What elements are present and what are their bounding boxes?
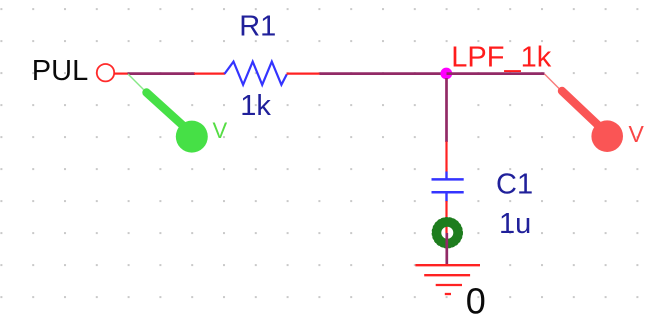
capacitor C1: [432, 172, 464, 202]
port PUL terminal circle: [97, 64, 114, 81]
svg-text:LPF_1k: LPF_1k: [451, 42, 551, 74]
wire port to probe tap: [114, 72, 129, 74]
value 1u: [499, 208, 531, 240]
wire junction down to capacitor: [445, 78, 448, 172]
label R1: [239, 11, 276, 43]
label 0: [466, 281, 486, 322]
marker ring (green): [432, 218, 462, 248]
wire probe tap to resistor lead: [128, 72, 196, 75]
svg-text:1u: 1u: [499, 208, 531, 240]
resistor R1: [194, 62, 321, 85]
voltage marker V (red): [545, 74, 645, 152]
wire junction to output tap: [447, 72, 545, 75]
value 1k: [240, 90, 271, 122]
junction node LPF_1k: [440, 68, 452, 80]
svg-text:R1: R1: [239, 11, 276, 43]
wire resistor to junction: [320, 72, 447, 75]
voltage marker V (green): [128, 74, 228, 153]
net label LPF_1k: [451, 42, 551, 74]
svg-text:0: 0: [466, 281, 486, 322]
wire capacitor to marker: [445, 201, 447, 233]
svg-text:V: V: [629, 121, 645, 147]
svg-text:V: V: [213, 118, 228, 143]
label C1: [496, 168, 533, 200]
svg-text:C1: C1: [496, 168, 533, 200]
net label PUL: [32, 55, 88, 87]
svg-text:1k: 1k: [240, 90, 271, 122]
svg-text:PUL: PUL: [32, 55, 88, 87]
wire marker to ground: [445, 233, 448, 265]
ground 0: [415, 265, 480, 294]
